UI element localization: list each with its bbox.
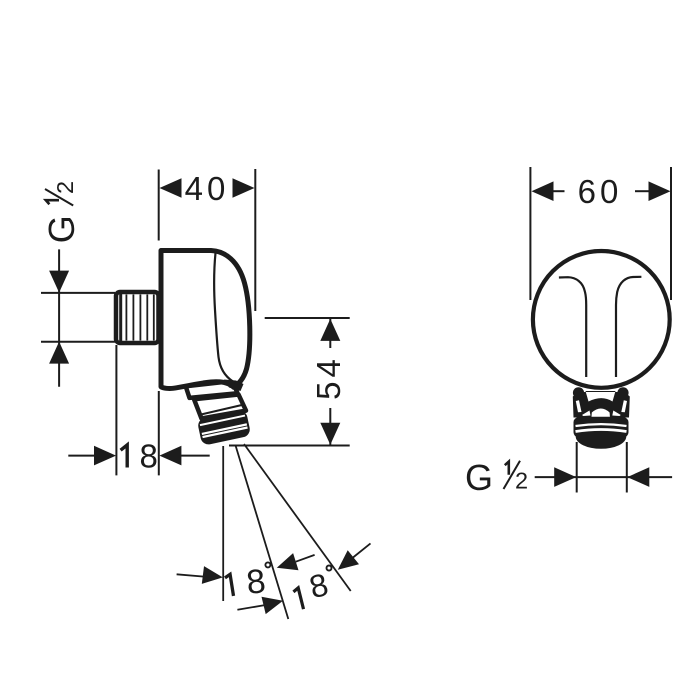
spray line 36 deg [244,444,351,591]
svg-text:60: 60 [578,173,623,210]
dim 18 arrow pointing right [94,446,116,466]
G 1/2 arrow pointing left [627,467,649,487]
G 1/2 dim line [535,476,672,478]
dim 40 extension line right [254,169,256,311]
dim 60 extension line right [670,167,672,300]
svg-text:54: 54 [310,355,347,400]
angle arrow left at 18deg line [296,555,315,562]
dim 54 line upper [329,319,331,348]
angle label 18 deg first [225,574,234,597]
G 1/2 dim arrow up [49,342,69,364]
G 1/2 extension line left [576,442,578,493]
angle label 18 deg second [293,588,304,611]
G 1/2 dim arrow down [49,271,69,293]
dim 18 arrow pointing left [159,446,181,466]
G 1/2 tick top (pipe top) [41,292,115,294]
svg-text:G: G [465,457,493,498]
dim 18 label [121,445,128,468]
svg-text:40: 40 [185,170,230,207]
svg-text:8: 8 [245,562,268,602]
outlet nozzle cone [194,395,246,419]
dim 40 arrow right [233,178,255,198]
spray line vertical [222,446,224,601]
inner contour right [616,277,641,377]
dim 18 extension line (pipe end) [115,345,117,475]
dim 54 line lower [329,408,331,445]
outlet hose nut (side view) [197,409,252,446]
hose nut (front view) [574,417,629,437]
body bottom-right junction [224,380,244,392]
angle arrow at vertical line [177,574,204,576]
dim 54 tick bottom (outlet) [229,445,350,447]
dim 60 tail right [635,190,649,192]
G 1/2 arrow pointing right [554,467,576,487]
dim 18 extension line (wall face) [158,391,160,475]
threaded pipe G1/2 [116,292,159,343]
svg-text:2: 2 [52,181,78,194]
connector block with white cutouts [573,391,630,418]
pipe threads [125,295,127,341]
dim 18 tail left [68,455,97,457]
dim 54 arrow up [320,319,340,341]
G 1/2 dim vertical line [58,249,60,386]
G 1/2 tick bottom (pipe bottom) [41,341,115,343]
angle arrow at 36deg line [353,543,371,557]
angle arrow right at 18deg line [237,605,264,610]
body inner contour line [214,253,242,385]
spray line 18 deg [236,446,289,619]
dim 40 arrow left [160,178,182,198]
left ear [573,387,584,398]
inner contour left [559,277,586,377]
dim 54 arrow down [320,423,340,445]
dim 60 tail left [551,190,565,192]
dim 60 extension line left [529,167,531,300]
escutcheon circle (front view) [533,251,670,388]
G 1/2 label left (rotated) [41,181,82,243]
svg-text:2: 2 [515,468,528,494]
outlet nozzle collar [186,381,238,398]
right ear [617,387,628,398]
dim 60 arrow right [649,181,671,201]
dim 60 arrow left [532,181,554,201]
svg-text:8: 8 [140,437,158,474]
dim 54 tick top (pipe axis) [265,317,350,319]
svg-text:G: G [41,215,82,243]
G 1/2 extension line right [626,442,628,493]
dim 40 extension line left [158,170,160,241]
dim 18 tail right [179,455,210,457]
body (side view) [161,251,250,389]
